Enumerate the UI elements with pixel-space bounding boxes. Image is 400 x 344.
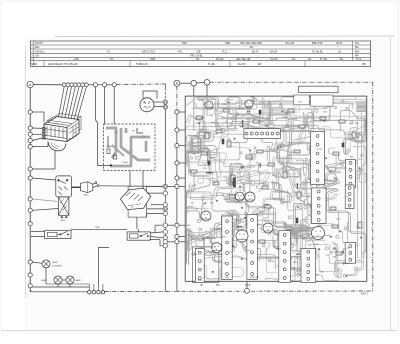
svg-text:LTD: LTD: [74, 57, 79, 61]
svg-text:TML-FRL-SRL-BRL: TML-FRL-SRL-BRL: [240, 41, 263, 45]
svg-text:MRS: MRS: [84, 195, 89, 197]
svg-text:NA-: NA-: [355, 41, 360, 45]
wires (terminals to connector J1): [59, 87, 87, 120]
wire (lamp L1 down): [45, 268, 47, 284]
svg-text:SP: SP: [200, 285, 204, 287]
wire TMP (relay K1 to relay K2): [71, 228, 127, 230]
svg-text:NL: NL: [292, 57, 296, 61]
relay K1: [45, 230, 71, 238]
lamp L2: [41, 276, 62, 284]
page edge (scan border bottom): [2, 330, 397, 332]
wire (bus to switch body): [32, 199, 58, 202]
heatsink hatch 2: [357, 107, 365, 112]
wire (column K vertical): [164, 88, 166, 100]
board outline bottom (dash-dot): [105, 290, 373, 292]
svg-text:RC20: RC20: [261, 183, 267, 185]
wire (bus to switch lower): [32, 209, 58, 211]
svg-text:TL NL-RL: TL NL-RL: [312, 50, 324, 54]
svg-text:NBC: NBC: [225, 41, 231, 45]
wire (lamp L2 drop): [57, 284, 59, 287]
svg-text:RC14: RC14: [282, 117, 288, 119]
wires (column K to column B): [167, 186, 174, 241]
svg-text:TR27: TR27: [264, 221, 270, 223]
transistor Q3: [235, 192, 244, 201]
relay K2: [127, 232, 150, 240]
svg-text:TLC: TLC: [222, 50, 227, 54]
svg-text:NL: NL: [196, 57, 200, 61]
wire (harness dash-dot to node K): [116, 83, 162, 86]
terminal strip TS10: [247, 215, 257, 280]
PCB copper traces: [187, 97, 367, 281]
transistor Q8: [205, 101, 213, 109]
wire (corner at x165): [162, 84, 165, 88]
terminal strip TS3: [346, 159, 356, 187]
wire (bus to switch contact): [32, 178, 56, 180]
transistor Q5: [236, 230, 248, 242]
svg-text:TRB: TRB: [150, 57, 155, 61]
transistor Q6: [212, 243, 222, 253]
PCB solder pads: [189, 99, 363, 277]
svg-text:RC29: RC29: [316, 149, 322, 151]
svg-text:A2: A2: [74, 131, 76, 134]
heatsink hatch 1: [357, 102, 365, 106]
svg-text:LT: LT: [107, 50, 110, 54]
svg-text:CB27: CB27: [198, 240, 204, 242]
svg-text:CA-NLC: CA-NLC: [35, 50, 45, 54]
relay cover RL2 (top view): [311, 95, 333, 106]
wire (lamp L3 drop): [69, 284, 71, 287]
svg-text:TL-BL: TL-BL: [208, 62, 216, 66]
connector region outline: [192, 247, 219, 282]
terminal strip TS1 (horizontal): [244, 129, 280, 139]
svg-text:LB: LB: [308, 57, 311, 61]
wire (B to C): [180, 82, 191, 84]
svg-text:PA-: PA-: [355, 54, 359, 58]
wire (terminal row links): [88, 84, 112, 86]
svg-text:CB12: CB12: [339, 163, 345, 165]
svg-text:GB: GB: [187, 225, 191, 227]
lamp L3: [66, 276, 81, 284]
svg-text:LTB: LTB: [196, 50, 201, 54]
svg-text:LAMP: LAMP: [52, 261, 58, 264]
left bus terminals (circled): [28, 110, 32, 288]
page edge (scan border right): [390, 36, 392, 331]
wire (lamps link): [46, 283, 89, 285]
svg-text:2.6kΩ: 2.6kΩ: [122, 162, 128, 164]
junction (dot): [110, 165, 112, 167]
title block table: [31, 41, 371, 67]
svg-text:RC26: RC26: [230, 184, 236, 186]
page edge (scan border top): [55, 35, 395, 38]
page edge (scan border left): [25, 46, 27, 298]
svg-text:BA-: BA-: [355, 45, 359, 49]
svg-text:TR25: TR25: [319, 272, 325, 274]
wire (plug P3 to column K): [99, 185, 163, 188]
svg-text:TR24: TR24: [293, 262, 299, 264]
terminal strip TS11: [195, 248, 204, 282]
svg-text:SPB: SPB: [198, 280, 203, 282]
PCB reference labels: [191, 102, 362, 279]
svg-text:J1: J1: [57, 124, 59, 126]
svg-text:BL-TL: BL-TL: [252, 50, 260, 54]
wires (left bus to connector J1): [32, 112, 55, 169]
wire (lamp L2 to L3): [62, 279, 66, 281]
svg-text:(LOWER): (LOWER): [52, 266, 62, 268]
column B terminals (circled): [175, 110, 179, 244]
resistors and capacitors (R/C): [191, 109, 362, 255]
svg-text:EMT 2: EMT 2: [361, 294, 368, 296]
svg-text:FRL: FRL: [35, 45, 40, 49]
svg-text:NA LR: NA LR: [270, 50, 278, 54]
svg-text:SP B: SP B: [245, 285, 251, 287]
svg-text:TR14: TR14: [263, 125, 269, 127]
svg-text:TRK: TRK: [182, 41, 187, 45]
terminal strip TS9: [222, 216, 232, 279]
wires (relay K2 to column K): [150, 225, 163, 246]
wire (column B vertical): [176, 86, 178, 109]
relay base K0 (dashed outline with busbars): [104, 124, 155, 171]
wires (relay base to plug P2): [130, 171, 143, 189]
svg-text:PM: PM: [216, 285, 220, 287]
svg-text:RC18: RC18: [272, 175, 278, 177]
terminal strip TS2: [311, 131, 325, 184]
wire (A to terminal row): [33, 84, 62, 86]
wires (bottom terminals up): [89, 284, 103, 291]
wire (D into board): [206, 85, 208, 96]
svg-text:NL-TR: NL-TR: [238, 62, 246, 66]
svg-text:TN: TN: [110, 57, 114, 61]
title block text entries: [31, 41, 365, 66]
wire (plug P2 frame down): [136, 217, 138, 229]
plug P2 (4-pin pictorial): [121, 186, 151, 217]
transistor Q1: [312, 227, 325, 240]
wire (C to D): [197, 82, 205, 85]
svg-text:BRC TRL: BRC TRL: [312, 41, 323, 45]
svg-text:LRL TRL NR: LRL TRL NR: [236, 57, 251, 61]
board outline right (dash-dot): [372, 82, 374, 291]
relay cover RL1 (top view): [294, 95, 309, 105]
connector terminals 1-7 (circled): [62, 83, 88, 87]
terminal strip TS6: [345, 243, 355, 264]
svg-text:NR-CT SLT: NR-CT SLT: [142, 50, 156, 54]
wire (terminal 10 down): [113, 87, 115, 124]
node D (circled): [204, 80, 210, 86]
svg-text:TRL-LN BL: TRL-LN BL: [190, 54, 203, 58]
plug P3 (lighter plug pictorial): [72, 182, 100, 197]
terminal strip TS8: [279, 231, 291, 283]
wire (riser to relay area): [98, 248, 109, 285]
svg-text:B: B: [176, 81, 178, 85]
svg-text:LN-B: LN-B: [336, 41, 342, 45]
node C (circled): [191, 80, 197, 86]
svg-text:HL-TR: HL-TR: [35, 41, 43, 45]
terminals 8-10 (circled): [93, 83, 116, 87]
svg-text:LB: LB: [258, 62, 261, 66]
wire (bus to lamps): [32, 286, 89, 288]
PCB board outline: [185, 96, 367, 281]
svg-text:RC28: RC28: [239, 108, 245, 110]
svg-text:TN-LR: TN-LR: [216, 57, 224, 61]
svg-text:LN: LN: [338, 50, 341, 54]
column K terminals (circled): [163, 100, 167, 248]
transistor Q7: [263, 223, 273, 233]
wire (bus to relay K1 a): [31, 231, 45, 233]
svg-text:CN: CN: [35, 54, 39, 58]
bottom terminals (circled): [88, 291, 105, 294]
svg-text:LAMP: LAMP: [41, 279, 47, 282]
svg-text:MRD: MRD: [31, 62, 37, 66]
svg-text:RC20: RC20: [269, 261, 275, 263]
wire (dash-dot top of board outline): [210, 81, 373, 83]
transistor Q4: [245, 192, 255, 202]
wire (terminal 9 down): [104, 87, 106, 124]
wire (bus to lamp L1): [32, 262, 42, 263]
svg-text:CL-TR: CL-TR: [270, 57, 278, 61]
svg-text:TL-NL: TL-NL: [320, 57, 328, 61]
terminal strip TS5: [345, 185, 354, 209]
connector J1 (multi-pin, isometric): [42, 114, 81, 151]
wire (C trace): [193, 96, 195, 131]
svg-text:MO-: MO-: [355, 50, 360, 54]
switch S1 (lighting switch): [56, 176, 72, 222]
svg-text:MRS: MRS: [61, 220, 66, 222]
svg-text:TR23: TR23: [276, 248, 282, 250]
wires (plug P2 to column K): [147, 186, 164, 217]
wire (D trace): [206, 96, 208, 116]
electrolytic capacitors: [208, 110, 344, 223]
relay RL3 (flat top): [299, 86, 338, 92]
svg-text:ATL: ATL: [178, 50, 183, 54]
svg-text:TUBE LIN: TUBE LIN: [136, 62, 148, 66]
svg-text:2.6kΩ: 2.6kΩ: [107, 146, 113, 148]
transistor Q9: [245, 100, 253, 108]
wire (relay K2 top to TMP): [138, 229, 140, 232]
svg-text:NC-LRL: NC-LRL: [285, 41, 295, 45]
terminal strip TS4: [311, 188, 326, 223]
wires (flasher to column K): [143, 91, 163, 107]
svg-text:LESS RELAY TH-K BLUR: LESS RELAY TH-K BLUR: [48, 62, 78, 66]
wire (terminal 8 down): [96, 87, 111, 165]
node B (circled terminal B): [174, 80, 180, 86]
terminal strip TS7: [301, 248, 316, 282]
wire (bottom bus): [30, 289, 87, 292]
flasher unit FL1 (round connector): [140, 98, 154, 112]
wires (column B to board edge): [179, 112, 185, 242]
node A (circled terminal A): [27, 81, 33, 87]
wire (bus to relay K1 b): [31, 236, 45, 238]
svg-text:TMP: TMP: [95, 227, 100, 229]
svg-text:TR10: TR10: [221, 237, 227, 239]
wire (left bus vertical): [29, 88, 31, 292]
svg-text:TN-L: TN-L: [356, 57, 362, 61]
node E (circled on bottom dash-dot): [245, 288, 250, 293]
wire (C into board): [193, 86, 195, 96]
lamp L1 (lower): [42, 260, 62, 268]
transistor Q2: [201, 211, 211, 221]
svg-text:LAMP: LAMP: [75, 279, 81, 282]
svg-text:PB: PB: [362, 62, 366, 66]
